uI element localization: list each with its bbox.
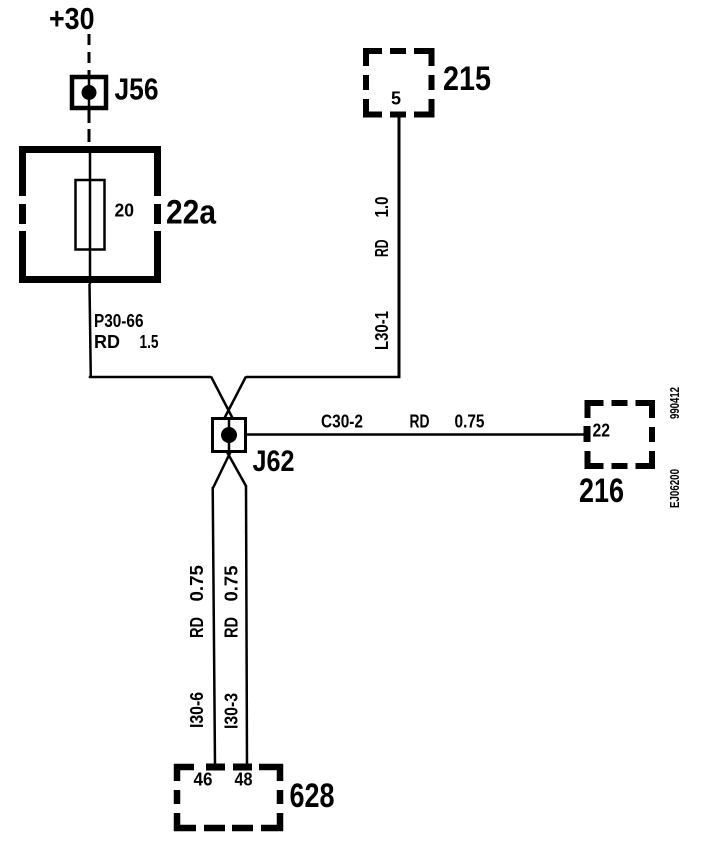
wire right branch vertical — [246, 485, 247, 766]
junction J62 — [213, 418, 246, 452]
svg-text:22a: 22a — [166, 194, 217, 232]
svg-text:J62: J62 — [253, 445, 295, 478]
wire diagonal left into J62 — [211, 377, 233, 420]
connector 215 (dashed box) — [363, 48, 435, 118]
svg-text:EJ06200: EJ06200 — [668, 469, 682, 508]
svg-text:RD: RD — [222, 617, 242, 638]
wire left branch vertical — [213, 487, 215, 766]
wire from 22a down to junction area — [90, 284, 91, 378]
svg-text:5: 5 — [391, 89, 401, 109]
wire diagonal from J62 to left branch — [213, 452, 231, 488]
wire dashed supply line down to J56 — [88, 34, 91, 76]
wire from 215 pin 5 down — [398, 118, 401, 379]
svg-text:I30-3: I30-3 — [222, 693, 242, 729]
connector 216 (dashed box) — [585, 400, 656, 469]
wire horizontal right segment to J62 — [246, 376, 401, 379]
svg-text:J56: J56 — [115, 72, 159, 107]
svg-text:0.75: 0.75 — [222, 566, 242, 602]
svg-text:990412: 990412 — [668, 387, 682, 419]
svg-text:215: 215 — [443, 60, 491, 98]
pin bar 46 at 628 entry — [206, 764, 225, 771]
svg-text:+30: +30 — [49, 1, 95, 36]
wire from J62 to 216 — [247, 433, 585, 436]
svg-text:P30-66: P30-66 — [94, 311, 144, 331]
svg-text:22: 22 — [593, 421, 611, 441]
svg-text:20: 20 — [115, 201, 135, 221]
wire diagonal from J62 to right branch — [227, 452, 246, 486]
svg-text:216: 216 — [579, 472, 624, 510]
svg-text:48: 48 — [235, 770, 253, 790]
fuse holder box 22a (thick dashed border) — [19, 146, 161, 283]
svg-text:RD: RD — [94, 332, 120, 352]
junction J56 — [72, 77, 106, 108]
wire diagonal right into J62 — [224, 377, 246, 420]
svg-text:0.75: 0.75 — [455, 412, 485, 432]
svg-text:46: 46 — [194, 770, 213, 790]
wire dashed from J56 to fuse box 22a — [88, 110, 91, 146]
svg-text:RD: RD — [372, 240, 392, 258]
svg-text:C30-2: C30-2 — [321, 412, 363, 432]
fuse element F20 — [76, 180, 105, 250]
svg-text:1.0: 1.0 — [372, 197, 392, 218]
svg-text:I30-6: I30-6 — [187, 692, 207, 728]
svg-text:L30-1: L30-1 — [372, 311, 392, 350]
wire through 22a — [89, 146, 92, 284]
svg-text:0.75: 0.75 — [187, 565, 207, 602]
svg-text:1.5: 1.5 — [140, 332, 159, 352]
pin bar at 216 entry — [584, 426, 591, 442]
connector 628 (dashed box) — [174, 764, 283, 831]
svg-text:RD: RD — [187, 617, 207, 638]
svg-text:628: 628 — [290, 777, 335, 815]
pin bar 48 at 628 entry — [233, 764, 252, 771]
wire horizontal left segment to J62 — [89, 376, 211, 379]
svg-text:RD: RD — [410, 412, 430, 432]
